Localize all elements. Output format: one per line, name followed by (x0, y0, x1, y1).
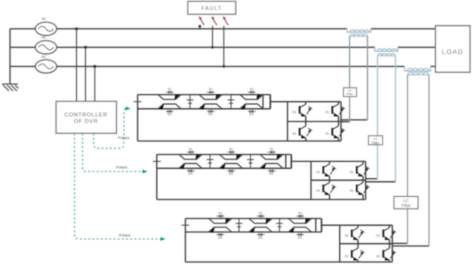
wire: T1 secondary right leg (367, 36, 369, 120)
T2 secondary coil (378, 55, 396, 57)
svg-text:FAULT: FAULT (201, 6, 222, 12)
wire: h1 outputs to transformer T1 legs (341, 120, 367, 122)
transistor Sb1 (316, 164, 336, 176)
transistor Sa3 (292, 126, 312, 138)
wire: h1 left column (305, 102, 307, 141)
switch S3/D3 cell2 b1 (199, 87, 222, 100)
wire: h3 right edge (391, 225, 393, 262)
wire: b1 bottom rail to H-bridge1 (138, 140, 341, 142)
wire: h2 mid rail (311, 179, 366, 181)
LC filter 2 box (369, 136, 383, 145)
ground (2, 84, 19, 91)
dc source tick b1 left (134, 101, 142, 103)
wire: h3 top rail (340, 224, 393, 226)
wire: phase C line (10, 65, 405, 67)
wire: h3 outputs to transformer T3 legs (392, 243, 429, 246)
wire: h1 mid rail (288, 121, 342, 123)
T1 primary coil (347, 29, 371, 32)
T1 secondary coil (350, 35, 368, 37)
wire: h2 left column (329, 161, 331, 199)
wire: b2 lower rail (157, 167, 291, 169)
T2 primary coil (375, 47, 398, 51)
switch S1/D1 cell1 b1 (158, 87, 181, 100)
switch S5/D5 cell3 b1 (240, 87, 263, 100)
pulses path 3 (75, 134, 166, 241)
svg-text:Filter: Filter (347, 92, 354, 96)
node B junction + drop to controller (84, 46, 87, 102)
wire: b3 cell close (315, 219, 317, 233)
transistor Sb4 (350, 183, 370, 195)
wire: h2 left edge (310, 161, 312, 199)
wire: T1 secondary left leg (349, 36, 351, 122)
wire: T3 secondary right leg (428, 75, 430, 246)
wire: left source rail (9, 29, 11, 84)
svg-text:LOAD: LOAD (442, 49, 464, 56)
switch S5/D5 cell3 b3 (289, 211, 312, 224)
FAULT box (188, 1, 236, 14)
switch S6/D6 cell3 b1 (240, 104, 263, 116)
switch S2/D2 cell1 b2 (179, 163, 202, 175)
wire: b2 output tap (291, 160, 311, 162)
dc link cell divider b3-1 (236, 219, 243, 233)
switch S5/D5 cell3 b2 (260, 147, 283, 160)
wire: h1 left edge (287, 102, 289, 141)
wire: h2 top rail (311, 160, 366, 162)
wire: b3 top rail (185, 218, 321, 220)
LC filter 3 box (394, 197, 418, 209)
wire: b2 left edge (156, 155, 158, 200)
dc link cell divider b1-2 (228, 95, 235, 109)
wire: h2 right edge (365, 161, 367, 199)
dc source tick b3 left (181, 224, 189, 226)
switch S6/D6 cell3 b3 (289, 227, 312, 239)
switch S3/D3 cell2 b2 (220, 147, 243, 160)
fault breaker 2 (211, 16, 217, 48)
wire: b1 cell close (262, 95, 264, 109)
switch S3/D3 cell2 b3 (249, 211, 272, 224)
T3 primary coil (405, 66, 431, 71)
wire: h2 right column (362, 161, 364, 199)
wire: h3 left column (357, 225, 359, 262)
switch S2/D2 cell1 b3 (209, 227, 232, 239)
svg-text:CONTROLLER: CONTROLLER (64, 112, 107, 118)
wire: h2 outputs to transformer T2 legs (366, 179, 396, 182)
AC source V1 (35, 17, 56, 35)
wire: b1 lower rail (138, 108, 271, 110)
wire: b2 top rail (157, 154, 291, 156)
transistor Sa2 (325, 104, 345, 116)
fault breaker 3 (222, 16, 228, 68)
node C junction + drop to controller (93, 65, 96, 101)
wire: b3 output tap (322, 224, 340, 226)
switch S4/D4 cell2 b2 (220, 163, 243, 175)
fault breaker 1 (198, 16, 204, 29)
dc source tick b2 left (153, 160, 161, 162)
controller box (56, 101, 116, 133)
node A junction + drop to controller (75, 27, 78, 101)
switch S1/D1 cell1 b3 (209, 211, 232, 224)
wire: h1 right column (338, 102, 340, 141)
svg-text:Pulses: Pulses (116, 166, 127, 170)
svg-text:Filter: Filter (372, 141, 381, 145)
pulses path 1 (94, 107, 131, 149)
wire: b1 left edge (137, 95, 139, 141)
svg-text:OF DVR: OF DVR (74, 119, 98, 125)
switch S2/D2 cell1 b1 (158, 104, 181, 116)
dc link cell divider b1-1 (187, 95, 194, 109)
wire: b2 cell close (285, 155, 287, 169)
transistor Sc4 (376, 248, 396, 260)
AC source V2 (35, 36, 56, 54)
svg-text:AC: AC (42, 55, 47, 59)
wire: h3 mid rail (340, 243, 393, 245)
pulses path 2 (83, 134, 148, 174)
transistor Sc1 (345, 228, 365, 240)
wire: h3 left edge (339, 225, 341, 262)
LC filter 1 box (344, 88, 357, 97)
switch S1/D1 cell1 b2 (179, 147, 202, 160)
wire: T2 secondary left leg (377, 56, 379, 179)
switch S4/D4 cell2 b1 (199, 104, 222, 116)
svg-text:Pulses: Pulses (119, 234, 130, 238)
wire: b3 bottom rail to H-bridge3 (185, 261, 392, 263)
dc link cell divider b2-1 (207, 155, 214, 169)
transistor Sa4 (325, 126, 345, 138)
wire: T3 secondary left leg (407, 75, 409, 244)
switch S6/D6 cell3 b2 (260, 163, 283, 175)
wire: b3 lower rail (185, 231, 321, 233)
wire: phase A line (10, 29, 436, 84)
wire: b1 right edge (269, 95, 271, 109)
wire: T2 secondary right leg (395, 56, 397, 182)
wire: h1 top rail (288, 101, 342, 103)
transistor Sc2 (376, 228, 396, 240)
T3 secondary coil (408, 74, 430, 76)
svg-text:AC: AC (42, 36, 47, 40)
wire: b1 top rail (138, 94, 271, 96)
transistor Sc3 (345, 248, 365, 260)
wire: phase B line (10, 46, 375, 48)
wire: h1 right edge (340, 102, 342, 141)
dc link cell divider b3-2 (276, 219, 283, 233)
svg-text:AC: AC (42, 17, 47, 21)
svg-text:Filter: Filter (401, 203, 411, 208)
wire: h3 right column (389, 225, 391, 262)
svg-text:Pulses: Pulses (118, 136, 129, 140)
wire: b2 bottom rail to H-bridge2 (157, 199, 366, 201)
LOAD box (436, 26, 471, 72)
wire: b1 output tap (270, 101, 287, 103)
wire: b3 left edge (184, 219, 186, 263)
wire: b2 right edge (290, 155, 292, 169)
switch S4/D4 cell2 b3 (249, 227, 272, 239)
dc link cell divider b2-2 (247, 155, 254, 169)
transistor Sa1 (292, 104, 312, 116)
AC source V3 (35, 55, 56, 73)
transistor Sb2 (350, 164, 370, 176)
transistor Sb3 (316, 183, 336, 195)
wire: b3 right edge (321, 219, 323, 233)
